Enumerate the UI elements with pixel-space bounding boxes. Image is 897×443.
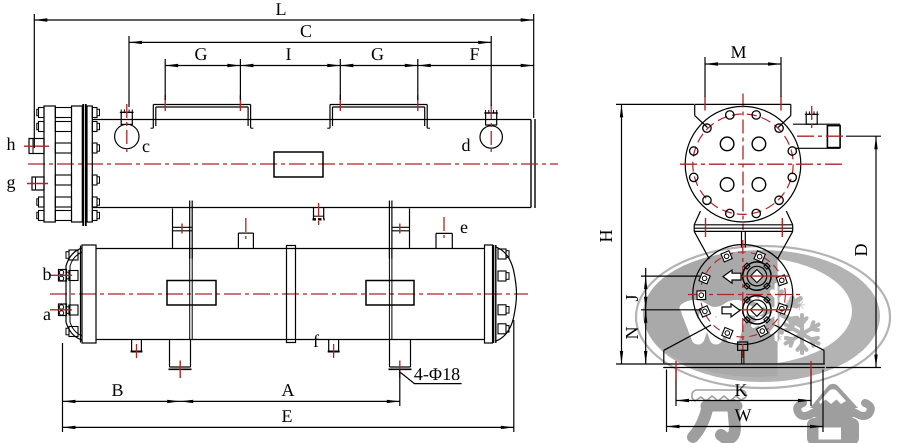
svg-text:N: N (622, 327, 642, 340)
dimension B (63, 380, 181, 403)
watermark logo ellipse ring (636, 246, 890, 388)
dimension E extension lines (63, 320, 514, 432)
svg-text:c: c (142, 136, 150, 156)
nozzle a centerline (50, 309, 72, 311)
nozzle 1 centerline (726, 275, 790, 277)
svg-text:K: K (734, 380, 747, 400)
svg-text:C: C (300, 21, 312, 41)
svg-text:f: f (313, 331, 319, 351)
dimension K extension lines (676, 369, 811, 406)
nozzle a (59, 304, 67, 316)
bottom end view head circle (693, 245, 793, 345)
bottom vessel right head (496, 247, 517, 341)
dimension D (851, 136, 878, 367)
saddle bolt centerline left (675, 361, 677, 379)
dimension M extension lines (705, 57, 781, 97)
dimension A (180, 380, 400, 403)
vent stub on bottom vessel (238, 233, 253, 248)
left head bolts (66, 250, 78, 337)
right head bolts (498, 249, 509, 334)
bottom end view saddle (663, 325, 825, 368)
dimension W extension lines (667, 370, 824, 433)
side nozzle vent fitting (805, 111, 819, 124)
nozzle f centerline (333, 344, 335, 360)
svg-text:F: F (469, 44, 479, 64)
svg-text:4-Φ18: 4-Φ18 (414, 364, 460, 384)
svg-text:e: e (460, 217, 468, 237)
nozzle e stub (436, 233, 452, 248)
watermark character wan top bar (692, 390, 746, 401)
saddle support left side view (169, 249, 193, 370)
end view bolt holes (690, 111, 797, 218)
svg-text:G: G (371, 44, 384, 64)
top bracket 1 (151, 105, 254, 129)
left flange bolts (37, 108, 44, 221)
vent stub centerline (245, 218, 247, 239)
label 4-phi18 leader (401, 373, 462, 384)
bottom tube bundle plate 2 (366, 281, 414, 306)
svg-text:H: H (596, 230, 616, 243)
saddle left bolt hole centerline (179, 361, 181, 379)
nozzle d neck (484, 110, 498, 125)
nozzle b centerline (50, 274, 72, 276)
nozzle g (32, 177, 44, 190)
saddle support right side view (389, 249, 412, 370)
svg-text:I: I (285, 44, 291, 64)
dimension D extension lines (826, 136, 881, 367)
lower shelf bolt centerlines (706, 218, 783, 237)
bottom tube bundle plate 1 (167, 281, 216, 306)
dimension E (63, 406, 514, 429)
dimension L extension lines (34, 14, 533, 148)
saddle bolt centerline right (810, 361, 812, 379)
flange gap stud blocks (55, 108, 71, 221)
svg-text:g: g (6, 172, 15, 192)
side nozzle centerline (811, 106, 813, 131)
nozzle c centerline (126, 104, 128, 152)
nozzle f stub (328, 340, 340, 352)
bottom vessel shell (96, 249, 485, 340)
dimension L (34, 0, 533, 22)
top saddle bolt centerlines (705, 97, 781, 111)
dimension G I F extension lines (165, 59, 418, 100)
end view side nozzle (793, 124, 840, 148)
nozzle h centerline (24, 145, 49, 147)
intermediate support left centerline (181, 224, 183, 234)
svg-text:J: J (622, 294, 642, 301)
svg-text:h: h (6, 134, 15, 154)
svg-text:G: G (194, 44, 207, 64)
dimension M (705, 42, 781, 66)
dimension I (240, 44, 340, 67)
svg-text:a: a (43, 304, 51, 324)
tube sheet double line (83, 104, 86, 226)
bracket 2 hole centerlines (340, 95, 418, 111)
svg-text:A: A (281, 380, 294, 400)
dimension G first (165, 44, 240, 67)
nozzle e centerline (443, 217, 445, 238)
watermark character ying bottom box (807, 418, 859, 443)
dimension C extension lines (129, 36, 491, 107)
end view centerlines (680, 94, 846, 231)
intermediate support right centerline (399, 224, 401, 234)
bottom end view centerlines (688, 240, 800, 358)
bottom vessel left girth flange (81, 245, 97, 343)
side nozzle axis centerline (797, 135, 846, 137)
watermark character ying roof (810, 384, 858, 408)
nozzle 2 centerline (726, 309, 790, 311)
bottom end view bolt circle centerline (700, 252, 785, 337)
dimension H (596, 104, 623, 364)
watermark snowflake large (754, 285, 801, 339)
bottom vessel centerline (50, 293, 528, 295)
dimension C (129, 21, 491, 44)
bottom end view pedestal (738, 342, 748, 364)
shell internal baffle plate (274, 152, 323, 177)
dimension W (667, 405, 824, 428)
saddle right bolt hole centerline (399, 361, 401, 379)
svg-text:E: E (281, 406, 292, 426)
top vessel centerline (28, 163, 558, 165)
flow arrow out (722, 304, 740, 317)
intermediate support right (389, 201, 409, 259)
nozzle c flange circle (115, 124, 139, 148)
bottom end view nozzle 1 (743, 262, 771, 290)
end view tube sheet circle (685, 106, 801, 222)
bottom vessel right girth flange (485, 245, 496, 343)
top bracket 2 (327, 105, 430, 129)
dimension B A extension line right (399, 370, 401, 407)
nozzle g centerline (27, 183, 48, 185)
drain stub centerline (318, 203, 320, 226)
svg-text:D: D (851, 244, 871, 257)
dimension J extension lines (641, 276, 702, 310)
dimension H extension lines (616, 104, 694, 364)
watermark character ying middle bar (812, 406, 856, 418)
svg-text:M: M (730, 42, 746, 62)
bottom end view nozzle 2 (743, 296, 771, 324)
top vessel shell (93, 120, 532, 208)
dimension F (418, 44, 534, 67)
left bonnet flange plate 2 (72, 106, 83, 222)
end view lower saddle and shelf (694, 211, 793, 259)
intermediate support left (173, 201, 193, 259)
nozzle b (59, 270, 67, 282)
dimension J (622, 268, 647, 318)
dimension N (622, 310, 647, 364)
nozzle h (29, 139, 44, 154)
svg-text:B: B (111, 380, 123, 400)
dimension K (676, 380, 811, 402)
end view top saddle (695, 104, 791, 127)
svg-text:b: b (42, 264, 51, 284)
bottom vessel mid girth flange (287, 246, 296, 343)
top vessel right end plate (531, 119, 535, 208)
end view bolt circle centerline (693, 114, 793, 214)
svg-text:××: ×× (776, 331, 790, 345)
nozzle d flange circle (480, 126, 502, 148)
left bonnet flange plate 1 (44, 106, 55, 222)
right flange bolts (92, 108, 99, 221)
svg-text:L: L (275, 0, 286, 19)
dimension G second (340, 44, 418, 67)
drain stub left under bottom vessel (131, 340, 143, 352)
svg-text:d: d (461, 135, 470, 155)
end view tube holes (720, 137, 765, 191)
flow arrow in (723, 270, 741, 283)
nozzle c neck (120, 110, 134, 125)
watermark snowflake small (786, 315, 819, 353)
nozzle d centerline (490, 105, 492, 152)
bottom end view rim bolts (697, 251, 787, 339)
shell side flange plate (87, 106, 92, 222)
svg-text:W: W (734, 405, 751, 425)
watermark character wan strokes (706, 401, 737, 412)
drain stub under top vessel (313, 208, 325, 220)
bracket 1 hole centerlines (165, 95, 240, 111)
drain stub left centerline (136, 344, 138, 360)
bottom vessel left head (66, 248, 82, 340)
watermark white VV letters (688, 312, 740, 338)
